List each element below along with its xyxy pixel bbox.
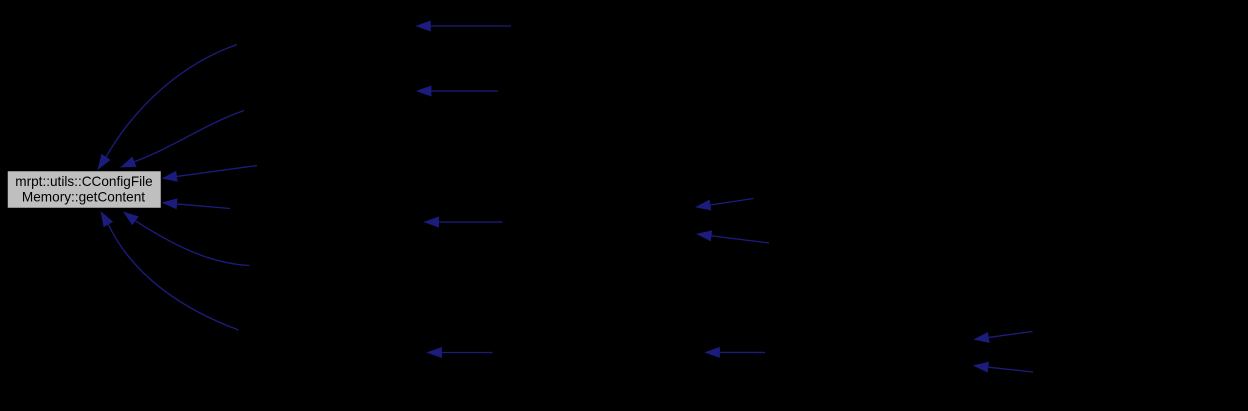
edge I wire: row4 second-level caller [439,221,503,223]
arrowhead A [98,154,111,170]
edge C wire: caller row3 -> getContent (line) [177,166,257,177]
arrowhead D [162,198,178,209]
arrowhead J [695,200,711,211]
arrowhead F [101,211,114,227]
edge H wire: row2 second-level caller [431,90,498,92]
edge K wire: third-level caller lower [712,236,770,243]
edge G wire: row1 second-level caller [431,25,511,27]
arrowhead C [162,171,178,182]
edge A wire: caller row1 -> getContent (curve) [106,45,237,157]
node U1: mrpt::utils::CConfigFileMemory::getContent (grey box) [7,171,162,209]
arrowhead B [120,157,137,168]
arrowhead N [973,332,989,343]
arrowhead G [415,21,431,32]
svg-text:Memory::getContent: Memory::getContent [22,189,145,204]
edge M wire: row6 third-level caller [720,351,765,353]
arrowhead K [696,230,712,241]
edge N wire: fourth-level caller upper [989,332,1033,338]
edge J wire: third-level caller upper [710,199,753,206]
svg-text:mrpt::utils::CConfigFile: mrpt::utils::CConfigFile [15,174,152,189]
edge F wire: caller row6 -> getContent (curve) [108,225,238,331]
arrowhead H [416,86,432,97]
arrowhead I [423,217,439,228]
edge E wire: caller row5 -> getContent (curve) [136,221,250,266]
edge D wire: caller row4 -> getContent (line) [177,204,230,209]
arrowhead L [426,347,442,358]
edge O wire: fourth-level caller lower [988,367,1033,372]
arrowhead M [704,347,720,358]
arrowhead E [123,212,139,226]
edge B wire: caller row2 -> getContent (curve) [135,111,245,162]
arrowhead O [973,362,989,373]
edge L wire: row6 second-level caller [442,352,493,354]
